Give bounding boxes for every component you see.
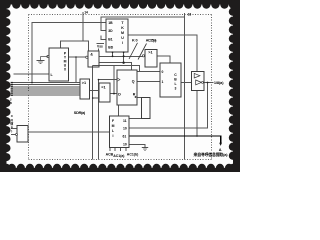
wire IC1 pin B1 stub: [101, 35, 106, 39]
wire gate G5 output to IC3: [28, 131, 110, 133]
wire IC1 pin 3D jumper: [101, 23, 106, 31]
svg-text:): ): [11, 129, 12, 133]
flip-flop FF1 box: [117, 70, 137, 105]
bus wire 2: [13, 84, 80, 86]
wire component R1 to IC3 pin 11: [129, 117, 142, 119]
wire gate G5 input 2: [11, 134, 16, 136]
svg-text:R: R: [133, 93, 136, 97]
FF1 clock triangle: [117, 78, 120, 82]
svg-text:1: 1: [162, 80, 164, 84]
gate G3 box: [80, 79, 90, 99]
wire MUX U2 input L from border: [14, 73, 50, 75]
svg-text:3D: 3D: [108, 29, 113, 33]
junction FF1 R output: [135, 96, 137, 98]
junction v1 at G4 input2: [92, 97, 94, 99]
svg-text:10: 10: [123, 126, 127, 130]
IC3 box: [110, 116, 130, 148]
wire U5 out to buffer U6: [181, 82, 192, 84]
junction node A net at U6 bottom: [196, 135, 198, 137]
wire IC3 pin 10b to ground: [129, 145, 145, 148]
bus wire 1: [13, 82, 80, 84]
wire W3 branch down to G4 out net: [113, 66, 115, 94]
wire gate G2 out to U5 top: [157, 56, 170, 63]
switch K0 diagonal: [129, 43, 138, 59]
gate G1 Vss stub: [98, 48, 100, 51]
wire rail A to IC1 pin 1B: [32, 23, 106, 83]
wire rail B to net 16: [101, 17, 185, 22]
wire FF1 pin to U5 input 0: [137, 70, 160, 72]
wire FF1 bottom stub to IC3 top: [118, 105, 120, 116]
svg-text:61: 61: [123, 135, 127, 139]
wire v1 to G4 input2: [93, 97, 99, 99]
bus wire 5: [13, 90, 80, 92]
wire branch to bus wire 1: [75, 57, 77, 83]
MUX U2 input bubble: [47, 55, 49, 57]
svg-text:1B: 1B: [108, 21, 113, 25]
wire U6 out branch to IC3 pin 10: [129, 83, 208, 128]
bus wire 7: [13, 94, 80, 96]
module boundary dashed box: [29, 15, 212, 160]
gate G1 input bubble: [86, 56, 88, 58]
svg-text:=1: =1: [101, 86, 105, 90]
bus entry ticks: [11, 83, 13, 96]
svg-text:I: I: [113, 134, 114, 138]
stamp border frame: [0, 0, 240, 172]
bus wire 4: [13, 88, 80, 90]
svg-text:I: I: [122, 41, 123, 45]
wire IC3 bottom pin stub 2: [114, 148, 116, 151]
svg-text:K0: K0: [132, 39, 138, 43]
latch U5 box: [160, 63, 181, 97]
net 14 vertical wire to Vss bar: [82, 12, 84, 41]
wire IC1 bottom pin stub b: [123, 52, 125, 63]
node A arrow: [219, 143, 222, 146]
net 16 vertical wire: [184, 13, 186, 160]
svg-text:来自寻呼信息提取(a): 来自寻呼信息提取(a): [193, 152, 229, 157]
svg-text:BD: BD: [108, 45, 113, 49]
svg-text:D: D: [118, 92, 121, 96]
wire FF1 clock input: [99, 79, 118, 81]
wire IC3 bottom pin stub 1: [109, 148, 111, 151]
svg-text:K: K: [121, 26, 124, 30]
svg-text:M: M: [121, 31, 124, 35]
wire v2 vertical: [98, 80, 100, 160]
gate G5 input bubble: [16, 134, 18, 136]
svg-text:AC1(b): AC1(b): [127, 152, 138, 156]
junction on W1 at IC1 stub b: [123, 55, 125, 57]
gate G4 box: [99, 83, 110, 102]
buffer U6 forward triangle: [194, 73, 200, 78]
svg-text:L: L: [174, 82, 176, 86]
junction on IC1 bottom pin a: [112, 51, 114, 53]
junction on IC1 bottom pin b: [123, 51, 125, 53]
wire FF1 R to component R1: [137, 96, 142, 98]
wire G3 output to G4 input1: [90, 90, 99, 92]
ground for IC3 pin: [142, 148, 148, 151]
bus wire 6: [13, 92, 80, 94]
svg-text:AC1(a): AC1(a): [113, 154, 124, 158]
svg-text:11: 11: [123, 119, 127, 123]
svg-text:10: 10: [123, 143, 127, 147]
wire MUX U2 out to gate G1 bubble: [69, 56, 86, 58]
wire IC1 bottom pin stub a: [112, 52, 114, 56]
wire U6 bottom to node A net: [196, 91, 198, 136]
wire rail D IC1 right pin to buffer U6 top: [128, 35, 197, 72]
svg-text:F: F: [112, 119, 114, 123]
wire FF1 Q to U5 input 1: [137, 81, 160, 83]
gate G5 box: [17, 126, 28, 143]
U5 vertical name CBL3: [174, 73, 177, 91]
MUX U2 box: [49, 48, 69, 81]
wire W1 gate G1 out1 to gate G2 bubble: [99, 55, 142, 57]
IC1 vertical name TKMUI: [121, 21, 124, 45]
svg-text:14: 14: [84, 11, 88, 15]
wire gate G5 input 1: [11, 128, 17, 130]
wire v1 vertical: [92, 66, 94, 160]
wire W2 gate G1 out2 to FF1 top: [99, 63, 131, 70]
ground for MUX U2 input: [37, 57, 48, 64]
IC1 box: [106, 19, 128, 52]
junction MUX out branch: [75, 56, 77, 58]
svg-text:L: L: [112, 129, 114, 133]
wire G4 out to FF1 D input: [110, 93, 117, 95]
signal label XQ(P) vertical: [10, 98, 13, 106]
wire IC3 bottom pin stub 4: [125, 148, 127, 151]
MUX U2 vertical name PYMUX: [64, 52, 67, 72]
svg-text:SDR(a): SDR(a): [74, 111, 86, 115]
switch AC15 diagonal: [138, 44, 147, 60]
gate G2 input bubble: [142, 55, 144, 57]
junction on W2 at IC1 stub b: [122, 62, 124, 64]
gate G1 box: [88, 51, 99, 67]
svg-text:B1: B1: [108, 38, 112, 42]
svg-text:0: 0: [162, 70, 164, 74]
wire IC3 pin 61 to node A: [129, 136, 221, 143]
wire MUX U2 top to gate G1 top-left: [61, 41, 89, 51]
junction on W1 at IC1 stub a: [112, 55, 114, 57]
svg-text:AC15(a): AC15(a): [146, 39, 157, 43]
buffer U6 reverse triangle with bubble: [196, 80, 202, 85]
gate G2 box: [145, 50, 157, 68]
svg-text:Q: Q: [132, 79, 135, 83]
svg-text:M: M: [112, 124, 115, 128]
svg-text:16: 16: [188, 12, 192, 16]
IC3 vertical name FMLI: [112, 119, 115, 138]
wire W3 cross link: [93, 66, 140, 72]
svg-text:3: 3: [175, 87, 177, 91]
component R1 box: [142, 97, 151, 118]
junction U6 out branch: [207, 82, 209, 84]
svg-text:&: &: [90, 53, 93, 57]
svg-text:>1: >1: [82, 81, 86, 85]
buffer U6 box: [192, 72, 205, 91]
wire U6 out to port 1/8(a): [204, 82, 214, 84]
Vss terminal bar: [97, 42, 104, 44]
svg-text:U: U: [121, 36, 124, 40]
svg-text:1/8(a): 1/8(a): [214, 80, 224, 85]
svg-text:Vss: Vss: [97, 45, 103, 49]
svg-text:>1: >1: [148, 51, 152, 55]
wire IC3 bottom pin stub 3: [120, 148, 122, 151]
junction rail A at bus wire 1: [31, 82, 33, 84]
junction v2 at FF1 clock: [98, 79, 100, 81]
junction G4 out at FF1 D: [113, 93, 115, 95]
bus wire 3: [13, 86, 80, 88]
